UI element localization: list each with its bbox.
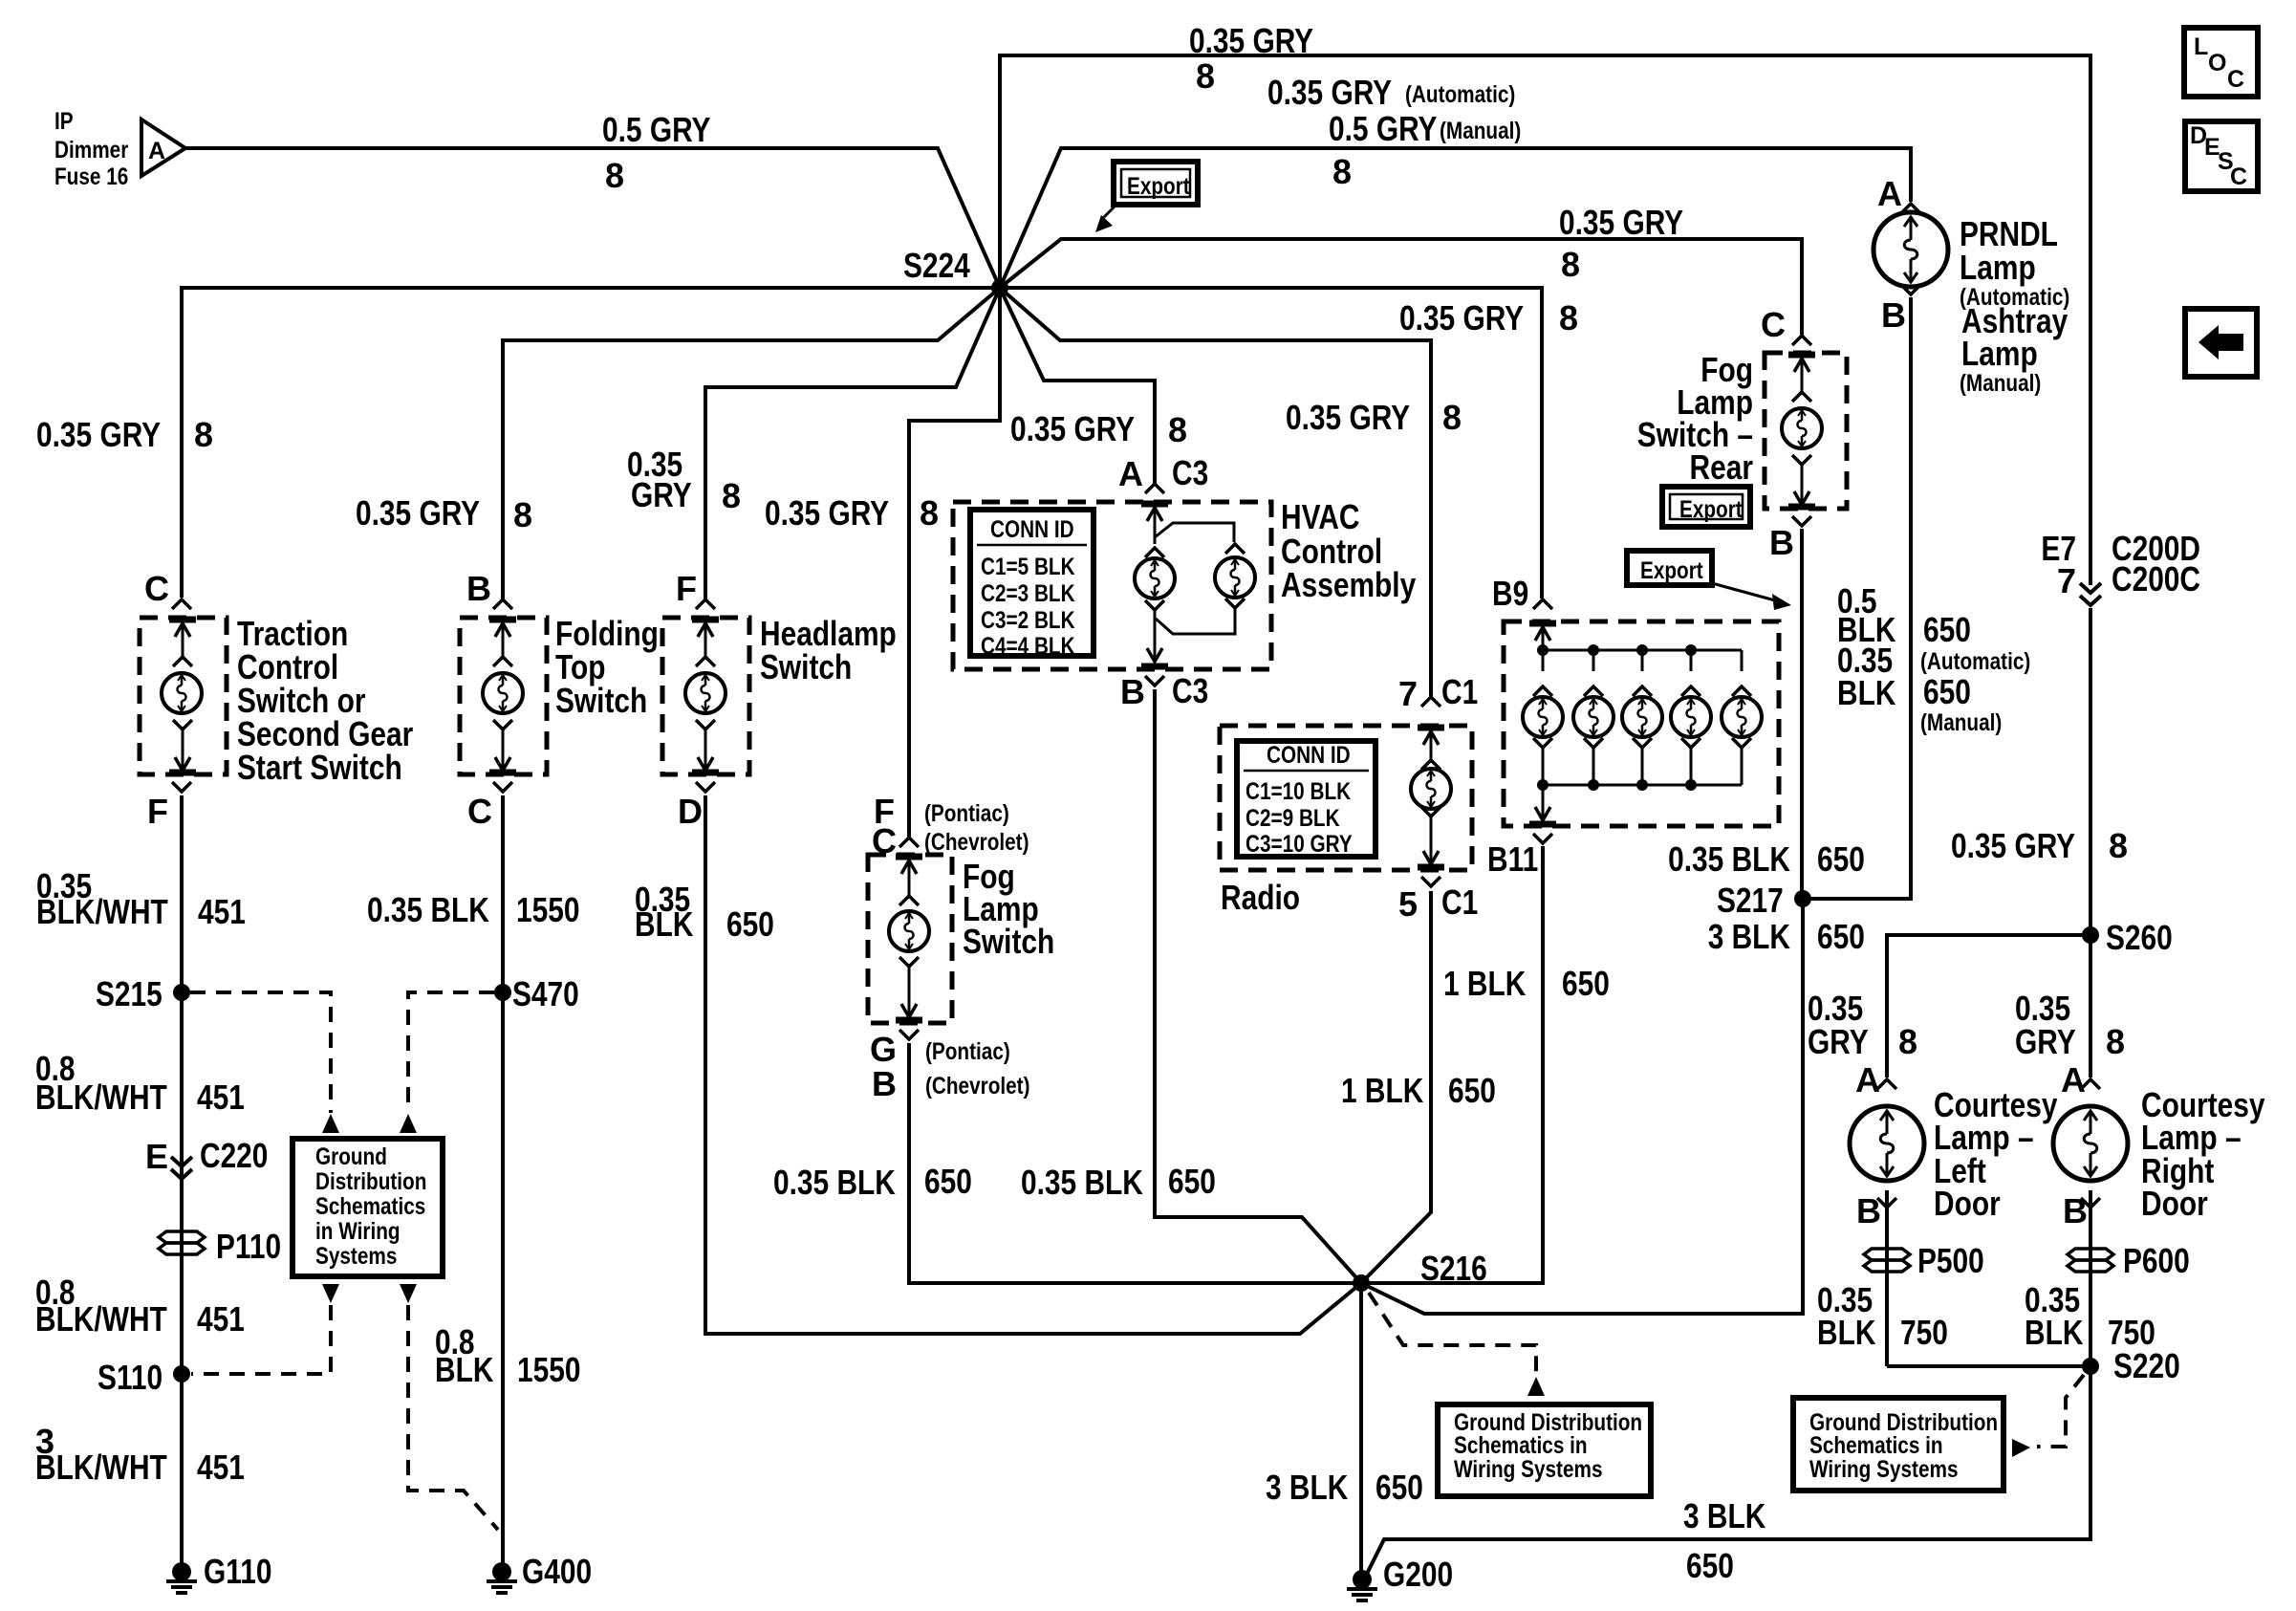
svg-text:G200: G200 (1383, 1555, 1453, 1594)
svg-text:650: 650 (1448, 1071, 1496, 1110)
wire 0.35 GRY 8 from C200C down to S260 (2089, 608, 2092, 935)
label pin B folding (466, 569, 491, 608)
label Courtesy Lamp - Left Door (1934, 1085, 2058, 1223)
svg-text:1 BLK: 1 BLK (1443, 964, 1526, 1003)
svg-text:0.35 GRY: 0.35 GRY (1010, 409, 1135, 448)
svg-text:Ground: Ground (315, 1143, 387, 1170)
svg-text:S224: S224 (903, 246, 970, 285)
svg-text:C3=10 GRY: C3=10 GRY (1245, 831, 1353, 858)
svg-text:451: 451 (197, 1448, 245, 1487)
svg-text:C: C (872, 821, 897, 860)
svg-text:Rear: Rear (1690, 447, 1754, 487)
label Folding Top Switch (555, 614, 659, 720)
ground distribution schematics in wiring systems box right (1793, 1398, 2004, 1491)
svg-text:CONN ID: CONN ID (1267, 742, 1351, 769)
dashed reference S215 to ground distribution schematics box (190, 992, 331, 1113)
svg-text:GRY: GRY (1808, 1022, 1869, 1061)
svg-text:0.35 GRY: 0.35 GRY (36, 415, 161, 454)
svg-text:C: C (144, 569, 169, 608)
svg-text:8: 8 (1332, 152, 1352, 191)
svg-text:(Manual): (Manual) (1920, 709, 2002, 736)
label 0.8 BLK/WHT 451 lower (35, 1273, 245, 1339)
svg-text:C3: C3 (1172, 453, 1208, 492)
label 0.35 GRY 8 fog rear feed (1559, 203, 1683, 284)
wire 0.35 GRY 8 S260 to courtesy lamp left door pin A (1887, 935, 2090, 1078)
label splice S224 (903, 246, 970, 285)
arrow up into ground distribution box middle (1527, 1377, 1545, 1396)
svg-text:A: A (1118, 454, 1143, 493)
label 0.35 GRY (Automatic) / 0.5 GRY (Manual) (1267, 73, 1521, 191)
label pin 5 C1 radio (1398, 882, 1478, 924)
svg-text:0.5 GRY: 0.5 GRY (1329, 109, 1438, 148)
svg-text:C3: C3 (1172, 671, 1208, 710)
svg-text:BLK: BLK (635, 904, 693, 944)
splice S220 (2082, 1358, 2099, 1375)
HVAC control assembly (dashed box with two lamps) (953, 484, 1271, 686)
label pin A C3 hvac (1118, 453, 1208, 493)
label 0.35 BLK/WHT 451 (36, 866, 246, 931)
wire 0.35 GRY 8 S224 right to cluster pin B9 (1000, 288, 1542, 599)
label pin 7 C1 radio (1398, 672, 1478, 713)
svg-text:G400: G400 (522, 1552, 592, 1591)
label 1 BLK 650 radio to S216 (1341, 1071, 1496, 1110)
svg-text:B: B (872, 1064, 897, 1103)
svg-text:C200C: C200C (2112, 559, 2200, 599)
svg-text:(Pontiac): (Pontiac) (925, 1038, 1010, 1065)
label 0.35 BLK 650 fog to S216 (773, 1162, 972, 1202)
svg-text:B: B (1120, 672, 1145, 711)
arrow down out of ground distribution box right (400, 1284, 417, 1303)
label ground G400 (522, 1552, 592, 1591)
label 0.8 BLK 1550 (435, 1322, 581, 1389)
DESC legend box (2185, 121, 2258, 191)
svg-text:Radio: Radio (1221, 878, 1300, 917)
svg-text:C1: C1 (1441, 882, 1478, 922)
label 3 BLK 650 S216 to G200 (1266, 1468, 1423, 1507)
label Export top (1127, 173, 1190, 200)
label splice S217 (1717, 881, 1784, 920)
ground G110 (166, 1562, 197, 1593)
svg-text:Dimmer: Dimmer (54, 137, 129, 163)
svg-text:0.35 GRY: 0.35 GRY (356, 493, 480, 533)
svg-text:C1=10 BLK: C1=10 BLK (1245, 778, 1351, 805)
label pin E C220 (145, 1136, 268, 1176)
label 0.35 GRY 8 fog feed (765, 493, 939, 533)
svg-text:0.35 GRY: 0.35 GRY (1286, 398, 1410, 437)
svg-text:Distribution: Distribution (315, 1168, 426, 1195)
label 650 (Automatic) 650 (Manual) (1920, 610, 2030, 736)
label pin A PRNDL (1877, 174, 1902, 213)
svg-text:Door: Door (1934, 1184, 2001, 1223)
svg-text:650: 650 (1817, 839, 1865, 879)
label Export fog rear (1679, 496, 1743, 523)
svg-text:Lamp: Lamp (1960, 248, 2036, 287)
export callout box top (1095, 162, 1198, 232)
label E7 7 C200D C200C (2041, 529, 2076, 600)
svg-text:B: B (1881, 295, 1906, 335)
svg-text:Door: Door (2141, 1184, 2208, 1223)
svg-text:(Manual): (Manual) (1440, 118, 1521, 144)
svg-text:L: L (2194, 33, 2208, 60)
svg-text:C4=4 BLK: C4=4 BLK (981, 633, 1075, 660)
svg-text:8: 8 (1559, 298, 1578, 337)
svg-text:5: 5 (1398, 884, 1418, 924)
headlamp switch (dashed box with lamp) (662, 599, 749, 792)
svg-text:IP: IP (54, 108, 74, 135)
label 0.35 GRY 8 radio feed (1286, 398, 1462, 437)
label pin B11 cluster (1487, 839, 1538, 879)
arrow from ground distribution box right bottom (2012, 1439, 2030, 1457)
svg-text:S110: S110 (97, 1358, 162, 1397)
svg-text:BLK: BLK (435, 1350, 493, 1389)
label pin B fog lamp switch rear (1769, 523, 1794, 562)
svg-text:BLK/WHT: BLK/WHT (35, 1078, 167, 1117)
svg-text:650: 650 (1686, 1546, 1734, 1585)
LOC legend box (2184, 28, 2258, 97)
label 3 BLK/WHT 451 (35, 1422, 245, 1487)
label 3 BLK 650 below S217 (1708, 917, 1790, 956)
connector C220 pin E (171, 1157, 192, 1179)
CONN ID table radio (1237, 741, 1375, 857)
svg-text:3 BLK: 3 BLK (1266, 1468, 1348, 1507)
label Courtesy Lamp - Right Door (2141, 1085, 2265, 1223)
pass through grommet P600 (2068, 1249, 2113, 1272)
wire 0.35 BLK 650 fog lamp switch pin G/B down to S216 (909, 1043, 1361, 1283)
svg-text:Export: Export (1679, 496, 1743, 523)
wire 0.35 GRY 8 S224 to HVAC control assembly pin A C3 (1000, 288, 1155, 483)
dashed reference S470 to ground distribution schematics box (408, 992, 494, 1113)
label IP Dimmer Fuse 16 (54, 108, 165, 190)
svg-text:451: 451 (197, 1078, 245, 1117)
label splice S110 (97, 1358, 162, 1397)
svg-text:8: 8 (2106, 1022, 2125, 1061)
courtesy lamp left door (1850, 1079, 1924, 1208)
svg-text:A: A (148, 138, 165, 164)
svg-text:Assembly: Assembly (1281, 565, 1416, 604)
svg-text:650: 650 (1923, 610, 1971, 649)
label 0.35 BLK 650 headlamp (635, 880, 774, 944)
svg-text:Fuse 16: Fuse 16 (54, 163, 128, 190)
label P600 (2123, 1241, 2190, 1280)
wire 1 BLK 650 cluster pin B11 down to S216 (1361, 846, 1543, 1283)
label 0.8 BLK/WHT 451 upper (35, 1049, 245, 1117)
label CONN ID table radio (1245, 742, 1353, 858)
svg-text:0.35 GRY: 0.35 GRY (1189, 21, 1313, 60)
label ground distribution box right text (1809, 1409, 1998, 1483)
label 0.5 BLK / 0.35 BLK PRNDL wire (1837, 581, 1895, 712)
svg-text:C: C (1761, 305, 1786, 344)
label ground G200 (1383, 1555, 1453, 1594)
svg-text:7: 7 (1398, 674, 1418, 713)
svg-text:451: 451 (198, 892, 246, 931)
label splice S215 (96, 974, 162, 1013)
wire 3 BLK 650 G200 to S220 (1367, 1366, 2090, 1574)
svg-text:C1: C1 (1441, 672, 1478, 711)
wire 0.35 GRY 8 S224 to headlamp switch pin F (705, 288, 1000, 599)
label 0.35 BLK 1550 (367, 890, 580, 929)
splice S216 (1353, 1274, 1370, 1292)
svg-text:C: C (2230, 163, 2247, 190)
svg-text:Switch: Switch (555, 681, 647, 720)
svg-text:0.35 GRY: 0.35 GRY (1267, 73, 1392, 112)
svg-text:0.35 BLK: 0.35 BLK (773, 1163, 896, 1202)
export callout box cluster (1627, 551, 1791, 610)
label 0.35 GRY 8 courtesy left (1808, 989, 1917, 1061)
svg-text:8: 8 (1898, 1022, 1917, 1061)
svg-text:(Pontiac): (Pontiac) (924, 800, 1009, 827)
wire 0.35 GRY 8 S260 down to courtesy lamp right door pin A (2089, 935, 2092, 1078)
splice S215 (173, 984, 190, 1001)
svg-text:1550: 1550 (516, 890, 580, 929)
svg-text:0.35 GRY: 0.35 GRY (1951, 826, 2075, 865)
label 0.35 GRY 8 traction feed (36, 415, 213, 454)
svg-text:Switch: Switch (760, 647, 852, 686)
svg-text:650: 650 (726, 904, 774, 944)
pass through grommet P110 (159, 1231, 205, 1254)
svg-text:3 BLK: 3 BLK (1683, 1496, 1765, 1535)
label CONN ID table hvac (981, 516, 1075, 660)
svg-text:451: 451 (197, 1299, 245, 1339)
ground G400 (487, 1562, 517, 1593)
label 3 BLK 650 bottom (1683, 1496, 1765, 1585)
label Export cluster (1640, 557, 1703, 584)
svg-text:BLK/WHT: BLK/WHT (36, 892, 168, 931)
svg-text:0.35 BLK: 0.35 BLK (1021, 1163, 1143, 1202)
svg-text:C3=2 BLK: C3=2 BLK (981, 607, 1075, 634)
traction control switch / second gear start switch (dashed box with lamp) (140, 599, 227, 792)
label 0.35 BLK 650 above S217 (1668, 839, 1790, 879)
dashed reference S216 to ground distribution schematics box (1369, 1293, 1536, 1374)
courtesy lamp right door (2053, 1079, 2128, 1208)
svg-text:0.35 BLK: 0.35 BLK (1668, 839, 1790, 879)
svg-text:650: 650 (1923, 672, 1971, 711)
arrow up into ground distribution box right (400, 1114, 417, 1133)
svg-text:F: F (147, 792, 168, 831)
svg-text:S217: S217 (1717, 881, 1784, 920)
label pin B C3 hvac (1120, 671, 1208, 711)
svg-text:Schematics: Schematics (315, 1193, 425, 1220)
svg-text:S215: S215 (96, 974, 162, 1013)
svg-text:P600: P600 (2123, 1241, 2190, 1280)
svg-text:(Automatic): (Automatic) (1405, 81, 1515, 108)
label 0.35 BLK 650 hvac to S216 (1021, 1162, 1216, 1202)
label pin C fog lamp switch rear (1761, 305, 1786, 344)
svg-text:7: 7 (2057, 561, 2076, 600)
label pin C folding (467, 792, 492, 831)
svg-text:8: 8 (605, 156, 624, 195)
svg-text:0.35 GRY: 0.35 GRY (1559, 203, 1683, 242)
label PRNDL Lamp (Automatic) Ashtray Lamp (Manual) (1960, 214, 2069, 397)
svg-text:G: G (870, 1030, 897, 1069)
fog lamp switch - rear (dashed box with lamp) (1765, 336, 1847, 526)
label Radio (1221, 878, 1300, 917)
connector C200D/C200C E7-7 (2080, 583, 2101, 605)
svg-text:(Automatic): (Automatic) (1920, 648, 2030, 675)
svg-text:G110: G110 (204, 1552, 272, 1591)
label 0.35 GRY 8 top loop (1189, 21, 1313, 96)
wire 0.35 GRY 8 S224 to radio pin 7 C1 (1000, 288, 1431, 696)
wire courtesy lamp left door pin B to P500 (1885, 1190, 1889, 1366)
svg-text:BLK/WHT: BLK/WHT (35, 1299, 167, 1339)
dashed reference ground distribution box to S110 (191, 1305, 331, 1374)
label 0.35 GRY 8 folding feed (356, 493, 532, 534)
svg-text:A: A (1877, 174, 1902, 213)
ground distribution schematics in wiring systems box middle (1438, 1404, 1651, 1496)
svg-text:0.35 BLK: 0.35 BLK (367, 890, 489, 929)
svg-text:650: 650 (1817, 917, 1865, 956)
svg-text:BLK: BLK (2025, 1313, 2083, 1352)
svg-text:C: C (2227, 66, 2244, 93)
wire 0.35 GRY 8 top loop S224 to C200D (1000, 55, 2090, 585)
wire 0.35 BLK 650 HVAC pin B C3 down to S216 (1155, 689, 1361, 1283)
svg-text:CONN ID: CONN ID (990, 516, 1074, 543)
svg-text:8: 8 (920, 493, 939, 533)
svg-text:C: C (467, 792, 492, 831)
label 0.35 GRY 8 cluster feed (1399, 298, 1578, 337)
PRNDL lamp / ashtray lamp (1874, 204, 1948, 294)
wire 0.35 GRY 8 S224 to fog lamp switch rear pin C (1000, 239, 1802, 335)
wire 0.35 BLK/WHT 451 traction control pin F down to G110 (180, 795, 184, 1571)
ground distribution schematics in wiring systems box left (292, 1139, 443, 1276)
svg-text:(Chevrolet): (Chevrolet) (925, 1073, 1030, 1099)
label pin B courtesy left (1856, 1191, 1881, 1230)
label ground G110 (204, 1552, 272, 1591)
label pin A courtesy left (1855, 1060, 1880, 1099)
wire 0.35 BLK 650 fog lamp switch rear pin B down to S217 (1800, 529, 1804, 899)
back arrow legend box (2185, 309, 2257, 377)
svg-text:A: A (2061, 1060, 2086, 1099)
svg-text:Systems: Systems (315, 1243, 397, 1270)
wire 0.35 GRY 8 S224 to PRNDL lamp pin A (Automatic/Manual) (1000, 148, 1911, 288)
svg-text:8: 8 (1561, 245, 1580, 284)
svg-text:C2=3 BLK: C2=3 BLK (981, 580, 1075, 607)
label ground distribution box left text (315, 1143, 426, 1270)
svg-text:C1=5 BLK: C1=5 BLK (981, 554, 1075, 580)
splice S217 (1794, 890, 1811, 907)
arrow up into ground distribution box left (322, 1114, 339, 1133)
svg-text:P500: P500 (1917, 1241, 1984, 1280)
svg-text:650: 650 (1168, 1162, 1216, 1201)
svg-text:D: D (678, 792, 703, 831)
svg-text:8: 8 (1168, 410, 1187, 449)
svg-text:GRY: GRY (631, 475, 692, 514)
svg-text:Wiring Systems: Wiring Systems (1809, 1456, 1959, 1483)
pass through grommet P500 (1864, 1249, 1910, 1272)
svg-text:B: B (2063, 1191, 2088, 1230)
svg-text:0.5 GRY: 0.5 GRY (602, 110, 711, 149)
svg-text:650: 650 (1375, 1468, 1423, 1507)
svg-text:GRY: GRY (2015, 1022, 2076, 1061)
label 0.35 BLK 750 right (2025, 1280, 2155, 1352)
svg-text:(Manual): (Manual) (1960, 370, 2041, 397)
svg-text:8: 8 (1442, 398, 1462, 437)
ground G200 (1347, 1570, 1377, 1600)
wire 0.35 BLK 750 P500 to S220 (1887, 1364, 2090, 1368)
label splice S216 (1420, 1249, 1487, 1288)
svg-text:Start Switch: Start Switch (237, 748, 402, 787)
label 0.35 BLK 750 left (1817, 1280, 1948, 1352)
svg-text:S220: S220 (2113, 1346, 2180, 1385)
svg-text:Schematics in: Schematics in (1809, 1432, 1943, 1459)
svg-text:8: 8 (194, 415, 213, 454)
svg-text:1550: 1550 (517, 1350, 581, 1389)
svg-text:BLK: BLK (1817, 1313, 1875, 1352)
label Fog Lamp Switch (963, 857, 1054, 961)
arrow down out of ground distribution box left (322, 1284, 339, 1303)
wire 0.35 GRY 8 S224 to folding top switch pin B (503, 288, 1000, 599)
label pin F traction (147, 792, 168, 831)
folding top switch (dashed box with lamp) (460, 599, 547, 792)
export callout box fog lamp switch rear (1662, 487, 1750, 527)
svg-text:(Chevrolet): (Chevrolet) (924, 829, 1029, 856)
wire 3 BLK 650 S217 down to S216 (1361, 899, 1803, 1314)
label pin B9 cluster (1492, 574, 1528, 613)
svg-text:BLK/WHT: BLK/WHT (35, 1448, 167, 1487)
svg-text:in Wiring: in Wiring (315, 1218, 401, 1245)
label 0.35 GRY 8 courtesy right (2015, 989, 2125, 1061)
svg-text:S470: S470 (512, 974, 579, 1013)
svg-text:750: 750 (1900, 1313, 1948, 1352)
label splice S220 (2113, 1346, 2180, 1385)
svg-text:Export: Export (1127, 173, 1190, 200)
radio (dashed box with lamp) (1220, 697, 1472, 886)
splice S224 (991, 279, 1008, 296)
label splice S260 (2106, 918, 2173, 957)
svg-text:B9: B9 (1492, 574, 1528, 613)
svg-text:B: B (1769, 523, 1794, 562)
svg-text:B: B (466, 569, 491, 608)
label 0.35 GRY 8 above S260 (1951, 826, 2128, 865)
svg-text:HVAC: HVAC (1281, 497, 1360, 536)
wire 3 BLK 650 S216 down to G200 (1359, 1283, 1363, 1578)
svg-text:S216: S216 (1420, 1249, 1487, 1288)
fog lamp switch (dashed box with lamp) (868, 838, 952, 1039)
label splice S470 (512, 974, 579, 1013)
label Headlamp Switch (760, 614, 897, 686)
label pin C traction (144, 569, 169, 608)
svg-text:8: 8 (513, 495, 532, 534)
splice S110 (173, 1365, 190, 1382)
label pins F C fog switch (872, 792, 1029, 860)
wire 0.35 GRY 8 S224 left to traction control switch pin C (182, 288, 1000, 598)
svg-text:P110: P110 (216, 1227, 281, 1266)
wire 0.35 GRY 8 S224 to fog lamp switch pin F/C (909, 288, 1000, 837)
splice S470 (494, 984, 511, 1001)
svg-text:1 BLK: 1 BLK (1341, 1071, 1423, 1110)
fuse feed symbol IP Dimmer Fuse 16 pin A (141, 120, 185, 176)
label 0.35 GRY 8 hvac feed (1010, 409, 1187, 449)
instrument cluster illumination lamps (dashed box with five lamps) pin B9 (1504, 599, 1779, 843)
dashed reference S220 to ground distribution schematics box (2037, 1375, 2084, 1447)
svg-text:3 BLK: 3 BLK (1708, 917, 1790, 956)
label ground distribution box middle text (1454, 1409, 1642, 1483)
svg-text:S260: S260 (2106, 918, 2173, 957)
label 1 BLK 650 B11 to S216 (1443, 964, 1610, 1003)
svg-text:Lamp: Lamp (1961, 334, 2038, 373)
svg-text:F: F (676, 569, 697, 608)
label pin D headlamp (678, 792, 703, 831)
svg-text:BLK: BLK (1837, 673, 1895, 712)
label pins G B fog switch (870, 1030, 1030, 1103)
label pin F headlamp (676, 569, 697, 608)
wire 0.35 BLK 650 headlamp switch pin D down to S216 (705, 795, 1361, 1334)
label DESC letters (2190, 122, 2247, 190)
label pin B PRNDL (1881, 295, 1906, 335)
svg-text:8: 8 (2109, 826, 2128, 865)
svg-text:Export: Export (1640, 557, 1703, 584)
wire 0.35 BLK 1550 folding top switch pin C down to G400 (501, 795, 505, 1571)
splice S260 (2082, 926, 2099, 944)
